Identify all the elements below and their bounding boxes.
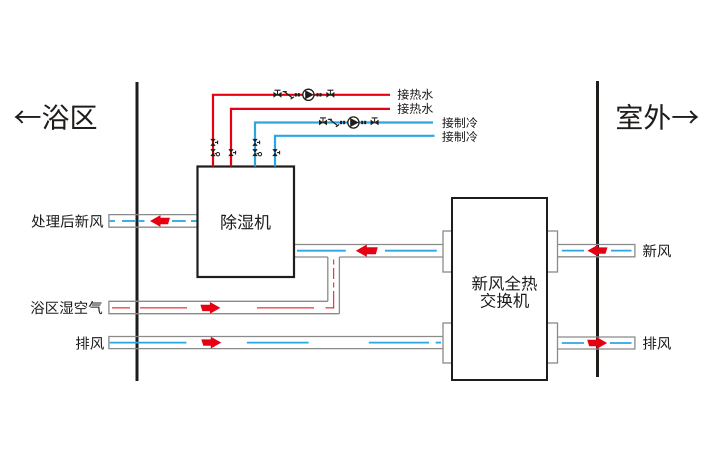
right wall (outdoor partition) [596,81,599,377]
duct: bath wet air [109,301,340,313]
flow arrow: exhaust left duct (right) [201,337,221,349]
exchanger port left-bottom [443,323,453,363]
duct: fresh air right [558,245,635,257]
flexible fitting (chilled, pump outlet) [361,121,363,124]
label: treated fresh air [32,214,104,227]
duct: exhaust air left [109,337,443,349]
valve on pipe 1 lower with drain [210,149,215,156]
label: exchanger name line1 [472,276,537,291]
centerline: fresh air duct right [562,250,584,252]
valve on pipe 3 upper [252,139,257,146]
valve (hot water line, left of pump) [274,92,282,98]
valve (chilled line, right of pump) [371,120,379,126]
valve on pipe 4 [272,149,277,156]
left wall (bath area partition) [136,82,139,381]
centerline: wet air duct (red chain) [112,307,130,309]
label: exhaust right [643,336,671,349]
label: outdoor (right big) [617,104,698,130]
label: fresh air right [643,244,671,257]
duct: dehumidifier to heat exchanger [294,245,444,258]
label: bath area (left big) [15,104,97,129]
flexible fitting (hot water, pump outlet) [317,93,319,96]
circulation pump (hot water) [303,89,314,100]
duct: exhaust air right [558,337,635,349]
label: chilled connection 1 [442,117,477,128]
valve on pipe 1 upper [210,139,215,146]
flow arrow: duct to dehumidifier (left) [356,245,378,257]
centerline: exhaust duct right [562,342,584,344]
valve (chilled line, left of pump) [319,120,327,126]
centerline: wet air corner piece (red) [326,302,334,308]
valve on pipe 2 [228,149,233,156]
pipe: chilled water supply 2 (blue) [275,136,435,167]
label: hot water connection 2 [398,103,433,114]
centerline: exhaust duct left [110,342,187,344]
flow arrow: exhaust right duct (right) [587,337,607,349]
centerline: riser duct (red chain vertical) [333,258,335,302]
flow arrow: treated fresh air (left) [150,215,170,227]
label: dehumidifier name [221,214,270,230]
strainer (chilled line) [328,118,332,120]
centerline: duct dehumidifier-exchanger [297,250,346,252]
heat exchanger box [452,198,547,380]
pipe: chilled water supply 1 (blue) [255,123,433,167]
dehumidifier unit box [198,167,295,278]
label: hot water connection 1 [398,89,433,100]
exchanger port right-bottom [547,323,558,363]
duct: treated fresh air (to bath area) [109,215,198,228]
centerline: treated fresh air duct [110,220,115,222]
flow arrow: fresh air right duct (left) [588,245,608,257]
circulation pump (chilled water) [348,117,359,128]
flow arrow: wet air duct (right) [200,302,220,314]
label: bath wet air [31,301,102,315]
pipe: hot water supply 1 (red) [213,95,390,167]
exchanger port right-top [547,231,558,272]
flexible fitting (chilled, pump inlet) [340,121,342,124]
duct: vertical riser from wet air duct [328,257,340,314]
label: exchanger name line2 [481,293,529,308]
label: chilled connection 2 [442,131,477,142]
pipe: hot water supply 2 (red) [231,109,390,167]
strainer (hot water line) [283,91,287,93]
valve on pipe 3 lower with drain [252,149,257,156]
exchanger port left-top [443,231,453,272]
valve (hot water line, right of pump) [326,92,334,98]
label: exhaust left [76,336,104,349]
flexible fitting (hot water, pump inlet) [295,93,297,96]
